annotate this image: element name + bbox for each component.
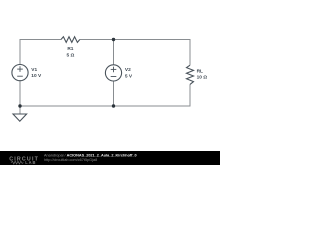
wire ground stub [19,106,21,114]
ground [13,114,27,121]
svg-text:Anandropal / ACIONAS_2021_2_Au: Anandropal / ACIONAS_2021_2_Aula_2_Kirch… [44,154,137,158]
svg-text:R1: R1 [67,46,73,52]
wire right branch lower [189,84,191,106]
svg-text:RL: RL [197,68,203,74]
resistor RL [187,65,208,84]
wire left branch upper [19,39,21,65]
svg-text:5 V: 5 V [125,73,133,79]
wire middle branch upper [113,40,115,66]
voltage source V2 [105,65,133,81]
node junction bottom left [18,104,21,107]
wire top-left segment [20,39,61,41]
svg-text:V1: V1 [31,67,37,73]
node junction top middle [112,38,115,41]
svg-text:5 Ω: 5 Ω [66,52,74,58]
svg-text:http://circuitlab.com/c67t5pGj: http://circuitlab.com/c67t5pGja8 [44,158,97,162]
svg-text:LAB: LAB [25,160,36,165]
wire bottom [20,105,190,107]
voltage source V1 [12,65,42,81]
svg-text:V2: V2 [125,67,131,73]
wire middle branch lower [113,81,115,106]
node junction bottom middle [112,104,115,107]
svg-text:10 Ω: 10 Ω [197,75,208,81]
wire top-right segment [80,39,190,41]
watermark bar [0,151,220,165]
wire left branch lower [19,81,21,107]
resistor R1 [61,37,80,59]
svg-text:10 V: 10 V [31,73,42,79]
wire right branch upper [189,39,191,65]
CircuitLab logo [9,157,39,165]
